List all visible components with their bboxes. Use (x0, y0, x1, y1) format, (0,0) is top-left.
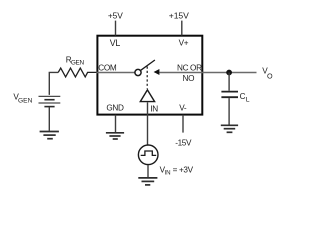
switch arm (141, 60, 155, 70)
junction node dot (226, 70, 232, 76)
ground (VGEN) (40, 132, 59, 139)
svg-text:= +3V: = +3V (173, 165, 194, 174)
switch throw arrowhead (154, 69, 160, 75)
battery VGEN plates (39, 96, 61, 106)
svg-text:NC OR: NC OR (177, 63, 202, 72)
ground (CL) (221, 125, 238, 132)
wire GND pin to ground (115, 115, 117, 132)
svg-text:IN: IN (165, 169, 171, 176)
svg-text:+15V: +15V (169, 11, 189, 21)
switch actuator dashed line (146, 67, 148, 89)
ground (pulse source) (138, 178, 157, 185)
switch pole circle S1 (135, 69, 141, 75)
svg-text:V+: V+ (179, 39, 189, 48)
wire NC/NO to output node (160, 72, 257, 74)
wire capacitor to ground (228, 98, 230, 125)
wire IN pin to pulse source (147, 102, 149, 144)
svg-text:O: O (267, 71, 273, 80)
wire +5V to VL pin (115, 21, 117, 36)
capacitor CL top plate (221, 91, 238, 93)
svg-text:GEN: GEN (18, 98, 33, 105)
svg-text:NO: NO (183, 74, 195, 83)
pulse source waveform (141, 151, 157, 155)
svg-text:GEN: GEN (71, 59, 85, 66)
wire VGEN to resistor RGEN (49, 72, 58, 95)
svg-text:-15V: -15V (175, 138, 192, 147)
resistor RGEN zigzag (58, 68, 96, 77)
svg-text:L: L (246, 96, 250, 103)
svg-text:COM: COM (98, 64, 117, 73)
svg-text:+5V: +5V (108, 11, 123, 21)
IC box U1 (97, 36, 202, 115)
svg-text:IN: IN (150, 105, 158, 114)
wire pulse source to ground (147, 165, 149, 177)
wire node to capacitor CL (228, 73, 230, 91)
wire battery to ground (48, 107, 50, 131)
ground (GND pin) (106, 133, 124, 139)
wire +15V to V+ pin (181, 21, 183, 36)
svg-text:V-: V- (179, 104, 187, 113)
svg-text:GND: GND (106, 103, 124, 112)
driver triangle (switch driver) (140, 90, 154, 102)
capacitor CL bottom plate (221, 96, 238, 98)
wire V- pin to -15V (182, 115, 184, 133)
pulse source VIN circle (138, 145, 158, 165)
svg-text:C: C (240, 92, 246, 101)
wire COM to switch pole (97, 72, 135, 74)
svg-text:VL: VL (110, 38, 121, 48)
